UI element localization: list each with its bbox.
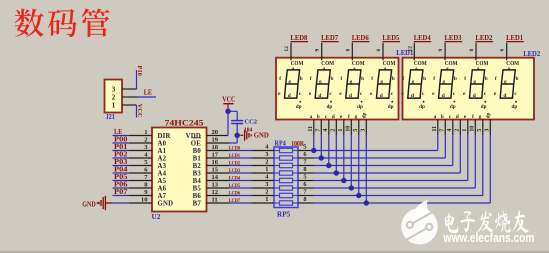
svg-text:g: g	[442, 79, 445, 85]
IC type label 74HC245	[165, 118, 204, 128]
svg-text:LED1: LED1	[506, 35, 524, 42]
wire to left display	[358, 134, 360, 196]
svg-text:g: g	[479, 114, 482, 120]
pack left pin 1	[252, 196, 275, 203]
pin 19 of U2 (OE)	[207, 137, 230, 144]
svg-text:a: a	[434, 114, 437, 120]
watermark logo circle	[401, 199, 437, 244]
junction	[356, 193, 361, 198]
svg-text:dp: dp	[419, 104, 425, 110]
net label LE	[144, 89, 152, 97]
svg-text:GND: GND	[158, 200, 174, 207]
svg-text:dp: dp	[485, 113, 491, 119]
svg-text:9: 9	[315, 49, 321, 52]
net label LCD3	[229, 168, 240, 174]
wire LCD7	[230, 202, 252, 204]
svg-text:8: 8	[303, 196, 306, 203]
svg-text:LCD7: LCD7	[229, 198, 240, 204]
DS2 segment pin 2	[454, 114, 461, 135]
IC U2 74HC245 body	[152, 128, 207, 212]
svg-text:13: 13	[212, 182, 219, 189]
DS2 segment pin 11	[431, 114, 438, 135]
pin 7 of U2	[129, 174, 152, 181]
wire LE	[137, 96, 156, 98]
svg-text:7: 7	[315, 129, 322, 132]
net label P07	[114, 188, 128, 196]
pin 9 of U2	[129, 189, 152, 196]
pin 1 of U2	[129, 129, 152, 136]
svg-text:LE: LE	[144, 89, 152, 97]
svg-text:d: d	[473, 93, 476, 99]
wire segment bus row 5	[314, 134, 468, 181]
svg-text:LED1: LED1	[396, 49, 413, 57]
pin 16 of U2	[207, 159, 230, 166]
net label P05	[114, 173, 128, 181]
svg-text:f: f	[495, 76, 497, 82]
DS2 segment pin 5	[476, 114, 483, 135]
svg-text:LED7: LED7	[321, 35, 339, 42]
wire to CC2	[228, 111, 237, 120]
svg-text:B0: B0	[193, 148, 202, 155]
svg-text:A1: A1	[158, 148, 167, 155]
DS1 segment pin 5	[352, 114, 359, 135]
svg-text:LED3: LED3	[445, 35, 463, 42]
net label LED7	[321, 35, 339, 42]
DS2 digit 1 COM pin 12	[407, 43, 414, 61]
svg-text:11: 11	[212, 197, 218, 204]
pack left pin 4	[252, 143, 275, 150]
wire segment bus row 2	[314, 134, 446, 158]
svg-text:d: d	[380, 93, 383, 99]
svg-text:8: 8	[345, 49, 351, 52]
J21 pin 2	[122, 96, 137, 98]
pin 5 of U2	[129, 159, 152, 166]
svg-text:A4: A4	[158, 170, 167, 177]
wire P04	[113, 172, 130, 174]
svg-text:GND: GND	[254, 132, 269, 140]
svg-text:LED5: LED5	[382, 35, 400, 42]
net label LCD7	[229, 198, 240, 204]
svg-text:19: 19	[212, 137, 219, 144]
svg-text:1: 1	[461, 129, 468, 132]
power port VCC	[222, 96, 235, 111]
svg-text:5: 5	[303, 144, 306, 151]
net label LCD6	[229, 190, 240, 196]
DS2 segment pin 1	[461, 114, 468, 135]
svg-text:LED8: LED8	[290, 35, 308, 42]
wire P06	[113, 187, 130, 189]
net label LED4	[414, 35, 432, 42]
pin 6 of U2	[129, 167, 152, 174]
svg-text:dp: dp	[357, 104, 363, 110]
designator CC2	[244, 119, 257, 126]
DS1 digit 1 COM pin 12	[284, 43, 291, 61]
svg-text:5: 5	[476, 129, 483, 132]
svg-text:f: f	[310, 76, 312, 82]
svg-text:a: a	[310, 114, 313, 120]
svg-text:1: 1	[265, 196, 268, 203]
svg-text:B6: B6	[193, 193, 202, 200]
pack left pin 3	[252, 151, 275, 158]
svg-text:17: 17	[212, 152, 219, 159]
svg-text:11: 11	[431, 126, 438, 132]
svg-text:A7: A7	[158, 193, 167, 200]
svg-text:6: 6	[500, 49, 506, 52]
pack right pin 5	[298, 144, 314, 151]
wire LCD6	[230, 195, 252, 197]
junction	[364, 200, 369, 205]
pack left pin 4	[252, 173, 275, 180]
svg-text:12: 12	[284, 46, 290, 52]
net label LE	[114, 128, 122, 136]
resistor pack RP4/RP5 body	[274, 147, 298, 208]
junction	[334, 170, 339, 175]
svg-text:dp: dp	[450, 104, 456, 110]
svg-text:RP4: RP4	[275, 139, 287, 147]
pack right pin 6	[298, 181, 314, 188]
svg-text:20: 20	[212, 129, 219, 136]
pack left pin 3	[252, 181, 275, 188]
pin 18 of U2	[207, 144, 230, 151]
DS2 segment pin 7	[439, 114, 446, 135]
net label LCD0	[229, 145, 240, 151]
svg-text:P10: P10	[136, 66, 143, 77]
wire segment bus row 7	[314, 134, 483, 196]
svg-text:dp: dp	[512, 104, 518, 110]
svg-text:8: 8	[303, 166, 306, 173]
pin 12 of U2	[207, 189, 230, 196]
wire to left display	[335, 134, 337, 173]
svg-text:g: g	[350, 79, 353, 85]
DS2 segment pin 4	[446, 114, 453, 135]
DS2 digit 4 COM pin 6	[500, 43, 507, 61]
wire to P10	[136, 70, 138, 89]
net label P02	[114, 150, 128, 158]
svg-text:f: f	[341, 76, 343, 82]
wire segment bus row 1	[314, 134, 438, 151]
svg-text:b: b	[516, 76, 519, 82]
net label P10	[136, 66, 143, 77]
svg-text:LCD5: LCD5	[229, 183, 240, 189]
svg-text:f: f	[472, 114, 474, 120]
svg-text:CC2: CC2	[244, 119, 257, 126]
svg-text:b: b	[454, 76, 457, 82]
svg-text:11: 11	[307, 126, 314, 132]
net label LCD2	[229, 160, 240, 166]
net label LED8	[290, 35, 308, 42]
DS2 digit 2 COM pin 9	[438, 43, 445, 61]
pin 17 of U2	[207, 152, 230, 159]
net label P01	[114, 143, 128, 151]
svg-text:g: g	[319, 79, 322, 85]
svg-text:4: 4	[446, 129, 453, 132]
svg-text:d: d	[288, 93, 291, 99]
junction	[319, 155, 324, 160]
svg-text:VCC: VCC	[136, 104, 143, 118]
svg-text:3: 3	[265, 151, 268, 158]
wire P00	[113, 142, 130, 144]
svg-text:g: g	[355, 114, 358, 120]
pin 14 of U2	[207, 174, 230, 181]
pin 15 of U2	[207, 167, 230, 174]
svg-text:dp: dp	[388, 104, 394, 110]
svg-text:d: d	[318, 93, 321, 99]
J21 pin 3	[122, 88, 136, 90]
svg-text:1: 1	[265, 166, 268, 173]
svg-text:J21: J21	[106, 114, 116, 121]
svg-text:2: 2	[454, 129, 461, 132]
junction	[235, 133, 240, 138]
title 数码管	[15, 8, 110, 37]
resistor element 4 of pack	[274, 171, 298, 175]
svg-text:f: f	[279, 76, 281, 82]
svg-text:f: f	[464, 76, 466, 82]
wire segment bus row 3	[314, 134, 453, 166]
pin 3 of U2	[129, 144, 152, 151]
svg-text:LED4: LED4	[414, 35, 432, 42]
net label P00	[114, 135, 128, 143]
svg-text:VCC: VCC	[222, 96, 235, 103]
svg-text:A3: A3	[158, 163, 167, 170]
wire to ground	[106, 202, 129, 204]
svg-text:LED6: LED6	[352, 35, 370, 42]
svg-text:10: 10	[345, 126, 352, 132]
resistor element 1 of pack	[274, 148, 298, 152]
svg-text:LCD2: LCD2	[229, 160, 240, 166]
DS1 segment pin 7	[315, 114, 322, 135]
ground symbol (right)	[237, 130, 269, 141]
svg-text:dp: dp	[481, 104, 487, 110]
svg-text:2: 2	[265, 188, 268, 195]
svg-text:RP5: RP5	[277, 210, 291, 218]
DS1 digit 2 COM pin 9	[315, 43, 322, 61]
pack left pin 2	[252, 188, 275, 195]
svg-text:A5: A5	[158, 178, 167, 185]
DS1 segment pin 11	[307, 114, 314, 135]
net label LED1	[506, 35, 524, 42]
wire LCD5	[230, 187, 252, 189]
resistor element 3 of pack	[274, 163, 298, 167]
pin 20 of U2 (VDD)	[207, 129, 229, 136]
value 100R	[291, 140, 305, 148]
DS1 segment pin 4	[322, 114, 329, 135]
wire VCC stub	[136, 105, 138, 118]
7-segment digit	[432, 60, 458, 110]
svg-text:7: 7	[439, 129, 446, 132]
svg-text:10: 10	[141, 197, 148, 204]
pin 11 of U2	[207, 197, 230, 204]
DS1 digit 4 COM pin 6	[376, 43, 383, 61]
DS1 segment pin 2	[330, 114, 337, 135]
wire to left display	[328, 134, 330, 166]
svg-text:1: 1	[337, 129, 344, 132]
pack right pin 7	[298, 189, 314, 196]
wire LE	[113, 135, 130, 137]
svg-text:www.elecfans.com: www.elecfans.com	[443, 230, 535, 245]
svg-text:d: d	[503, 93, 506, 99]
resistor element 7 of pack	[274, 193, 298, 197]
svg-text:d: d	[411, 93, 414, 99]
svg-text:b: b	[317, 114, 320, 120]
wire P07	[113, 195, 130, 197]
svg-text:8: 8	[469, 49, 475, 52]
net label LCD4	[229, 175, 240, 181]
wire LCD0	[230, 150, 252, 152]
svg-text:2: 2	[112, 94, 116, 102]
svg-text:10: 10	[469, 126, 476, 132]
junction	[326, 163, 331, 168]
svg-text:d: d	[332, 114, 335, 120]
value 104	[244, 127, 253, 134]
svg-text:g: g	[412, 79, 415, 85]
svg-text:d: d	[349, 93, 352, 99]
svg-text:b: b	[485, 76, 488, 82]
net label P04	[114, 165, 128, 173]
net label P03	[114, 158, 128, 166]
capacitor CC2	[231, 121, 243, 136]
svg-text:b: b	[300, 76, 303, 82]
J21 pin 1	[122, 104, 136, 106]
wire P05	[113, 180, 130, 182]
wire to left display	[320, 134, 322, 158]
svg-text:74HC245: 74HC245	[165, 118, 204, 128]
DS2 digit 3 COM pin 8	[469, 43, 476, 61]
svg-text:b: b	[441, 114, 444, 120]
DS2 segment pin 3	[484, 113, 492, 135]
svg-text:14: 14	[212, 174, 219, 181]
svg-text:LED2: LED2	[475, 35, 493, 42]
junction	[225, 109, 230, 114]
pack right pin 8	[298, 166, 314, 173]
svg-text:A2: A2	[158, 155, 167, 162]
wire LCD2	[230, 165, 252, 167]
net label LED2	[475, 35, 493, 42]
svg-text:f: f	[403, 76, 405, 82]
7-segment digit	[278, 60, 304, 110]
svg-text:g: g	[380, 79, 383, 85]
svg-text:U2: U2	[152, 213, 161, 221]
wire P01	[113, 150, 130, 152]
svg-text:B5: B5	[193, 185, 202, 192]
svg-text:12: 12	[212, 189, 219, 196]
net label LED1 (blue)	[396, 49, 413, 57]
svg-text:B1: B1	[193, 155, 202, 162]
DS1 segment pin 3	[360, 113, 368, 135]
svg-text:OE: OE	[191, 140, 201, 147]
svg-text:g: g	[288, 79, 291, 85]
net label LED3	[445, 35, 463, 42]
svg-text:b: b	[331, 76, 334, 82]
svg-text:P07: P07	[114, 188, 128, 196]
svg-text:5: 5	[303, 174, 306, 181]
display module DS1 body	[276, 58, 399, 120]
svg-text:g: g	[504, 79, 507, 85]
svg-text:f: f	[433, 76, 435, 82]
svg-text:LCD6: LCD6	[229, 190, 240, 196]
power label VCC (J21)	[136, 104, 143, 118]
resistor element 6 of pack	[274, 186, 298, 190]
svg-text:3: 3	[484, 129, 491, 132]
wire LCD1	[230, 157, 252, 159]
7-segment digit	[309, 60, 335, 110]
svg-text:B7: B7	[193, 200, 202, 207]
svg-text:f: f	[348, 114, 350, 120]
svg-text:DIR: DIR	[158, 133, 171, 140]
svg-text:16: 16	[212, 159, 219, 166]
pack right pin 5	[298, 174, 314, 181]
svg-text:3: 3	[112, 86, 116, 94]
wire segment bus row 8	[314, 134, 491, 203]
DS1 segment pin 1	[337, 114, 344, 135]
IC pin names (OE with overbar)	[158, 133, 202, 208]
resistor element 8 of pack	[274, 201, 298, 205]
watermark url	[443, 230, 535, 245]
wire P02	[113, 157, 130, 159]
watermark text 电子发烧友	[445, 210, 529, 233]
svg-text:B4: B4	[193, 178, 202, 185]
svg-text:15: 15	[212, 167, 219, 174]
ground symbol (left)	[82, 196, 112, 210]
wire segment bus row 4	[314, 134, 461, 173]
svg-text:5: 5	[352, 129, 359, 132]
svg-text:2: 2	[265, 158, 268, 165]
svg-text:B3: B3	[193, 170, 202, 177]
svg-text:A6: A6	[158, 185, 167, 192]
resistor element 2 of pack	[274, 156, 298, 160]
svg-text:b: b	[423, 76, 426, 82]
DS1 segment pin 10	[345, 114, 352, 135]
svg-text:2: 2	[330, 129, 337, 132]
7-segment digit	[494, 60, 520, 110]
wire to left display	[313, 134, 315, 151]
DS1 digit 3 COM pin 8	[345, 43, 352, 61]
wire segment bus row 6	[314, 134, 476, 188]
svg-text:b: b	[361, 76, 364, 82]
pack left pin 1	[252, 166, 275, 173]
svg-text:3: 3	[360, 129, 367, 132]
junction	[311, 148, 316, 153]
wire LCD3	[230, 172, 252, 174]
7-segment digit	[339, 60, 365, 110]
pin 10 of U2 (GND)	[129, 197, 152, 204]
svg-text:104: 104	[244, 127, 253, 134]
net label LCD1	[229, 153, 240, 159]
connector J21	[105, 80, 123, 121]
net label LCD5	[229, 183, 240, 189]
svg-text:f: f	[371, 76, 373, 82]
svg-text:LCD3: LCD3	[229, 168, 240, 174]
svg-text:1: 1	[144, 129, 147, 136]
net label LED5	[382, 35, 400, 42]
svg-text:b: b	[392, 76, 395, 82]
wire P03	[113, 165, 130, 167]
wire LCD4	[230, 180, 252, 182]
7-segment digit	[370, 60, 396, 110]
svg-text:6: 6	[376, 49, 382, 52]
svg-text:LCD1: LCD1	[229, 153, 240, 159]
designator RP5	[277, 210, 291, 218]
junction	[349, 185, 354, 190]
designator RP4	[275, 139, 287, 147]
net label P06	[114, 180, 128, 188]
wire to left display	[365, 134, 367, 203]
svg-text:3: 3	[265, 181, 268, 188]
svg-text:LCD0: LCD0	[229, 145, 240, 151]
designator U2	[152, 213, 161, 221]
pack left pin 2	[252, 158, 275, 165]
wire VDD to VCC	[227, 111, 229, 135]
svg-text:dp: dp	[361, 113, 367, 119]
